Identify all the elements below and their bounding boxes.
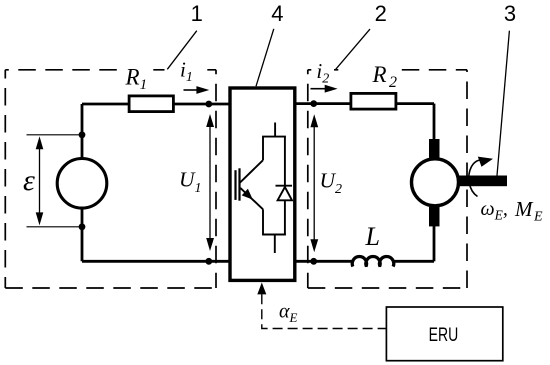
EMF source circle <box>57 159 107 209</box>
node dot: U1 top node <box>205 101 212 108</box>
inductor L coil <box>352 256 394 266</box>
alpha_E dashed control line <box>262 294 386 328</box>
node dot: U2 bottom node <box>310 258 317 265</box>
IGBT emitter branch vertical <box>262 209 264 234</box>
motor bottom brush <box>429 207 440 227</box>
svg-text:1: 1 <box>191 1 203 26</box>
current arrow i1 <box>184 89 199 91</box>
IGBT bottom bar <box>262 234 286 236</box>
label background mask over box1 top edge (R1 label area) <box>124 66 148 75</box>
epsilon extension line top <box>27 134 83 136</box>
node dot: U1 bottom node <box>205 258 212 265</box>
current arrow i2 <box>311 88 327 90</box>
dashed box 1 (source subsystem) top edge <box>5 69 216 71</box>
dashed box 1 bottom edge <box>5 287 216 289</box>
dashed box 1 right edge <box>215 70 217 288</box>
node dot: left wire bottom (epsilon bottom) <box>79 223 86 230</box>
motor shaft <box>459 176 507 187</box>
epsilon extension line bottom <box>27 226 83 228</box>
dashed box 2 left edge <box>307 70 309 288</box>
wire: bottom-left horizontal <box>82 260 230 263</box>
wire: top-left horizontal (source to converter) <box>82 103 230 106</box>
voltage arrow U1 <box>209 125 211 241</box>
diode D1 anode lead <box>284 200 286 234</box>
IGBT gate bar <box>234 170 236 200</box>
motor M armature circle <box>412 159 459 206</box>
node dot: U2 top node <box>310 100 317 107</box>
label background mask over box1 top edge (i1 label area) <box>165 66 203 75</box>
alpha_E control arrowhead into converter <box>257 283 266 295</box>
IGBT top terminal stub <box>274 123 276 137</box>
IGBT collector branch vertical <box>262 137 264 161</box>
wire: bottom-right horizontal segment left of inductor <box>295 260 354 263</box>
node dot: left wire top (epsilon top) <box>79 131 86 138</box>
wire: top-right horizontal (converter to motor) <box>295 102 434 105</box>
wire: right vertical (down to motor) <box>433 104 436 141</box>
leader line for label 1 <box>167 31 197 70</box>
leader line for label 4 <box>256 29 274 87</box>
leader line for label 3 <box>497 31 509 176</box>
dashed box 2 (motor circuit subsystem) top edge <box>308 69 467 71</box>
IGBT collector diagonal <box>240 160 263 182</box>
epsilon arrowhead up <box>36 136 44 149</box>
label background mask over box2 top edge (i2 label area) <box>312 66 334 75</box>
voltage arrow U2 <box>313 125 315 242</box>
svg-text:2: 2 <box>375 1 387 26</box>
IGBT emitter arrowhead <box>242 189 253 200</box>
wire: motor bottom vertical <box>433 225 436 261</box>
leader line for label 2 <box>336 29 371 70</box>
IGBT emitter diagonal <box>240 188 263 209</box>
dashed box 2 right edge <box>466 70 468 288</box>
rotation arrowhead <box>478 157 493 167</box>
IGBT channel bar <box>238 168 240 200</box>
wire: left vertical (through EMF source) <box>81 104 84 261</box>
diode D1 triangle <box>278 187 292 200</box>
wire: bottom-right horizontal segment right of inductor <box>393 260 434 263</box>
diode D1 cathode bar <box>276 185 293 187</box>
diode D1 cathode lead <box>284 137 286 187</box>
label background mask over box2 top edge (R2 label area) <box>339 66 399 75</box>
resistor R2 body <box>351 93 396 109</box>
svg-text:4: 4 <box>271 1 283 26</box>
svg-text:ERU: ERU <box>429 324 459 346</box>
epsilon measurement arrow line <box>39 147 41 215</box>
dashed box 1 left edge <box>4 70 6 288</box>
svg-text:ε: ε <box>23 164 35 197</box>
IGBT top bar <box>262 136 286 138</box>
svg-text:L: L <box>365 222 380 251</box>
motor top brush <box>429 139 440 159</box>
ERU control unit box <box>386 307 502 361</box>
epsilon arrowhead down <box>36 212 44 225</box>
IGBT bottom terminal stub <box>274 235 276 254</box>
resistor R1 body <box>129 96 173 112</box>
dashed box 2 bottom edge <box>308 287 467 289</box>
svg-text:3: 3 <box>504 1 516 26</box>
svg-text:ωE,: ωE, <box>481 198 508 223</box>
rotation arrow arc <box>469 160 480 197</box>
converter block U4 body <box>230 88 295 280</box>
